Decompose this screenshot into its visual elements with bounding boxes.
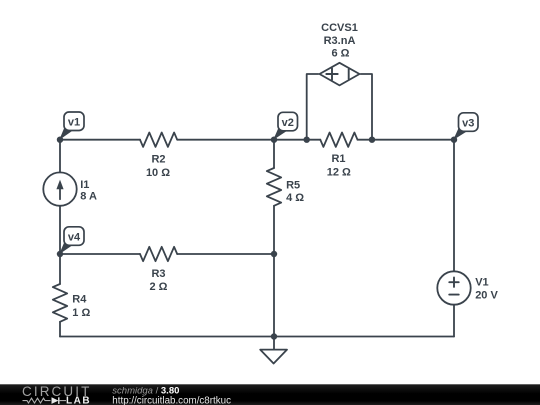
svg-text:20 V: 20 V <box>475 290 498 302</box>
svg-text:8 A: 8 A <box>80 191 97 203</box>
svg-text:I1: I1 <box>80 179 89 191</box>
wire R5 to middle junction <box>273 206 275 254</box>
svg-text:1 Ω: 1 Ω <box>72 307 90 319</box>
svg-text:http://circuitlab.com/c8rtkuc: http://circuitlab.com/c8rtkuc <box>112 395 231 405</box>
wire R4 to bottom rail <box>59 322 61 337</box>
junction CCVS left <box>304 137 310 143</box>
junction ground <box>271 333 277 339</box>
svg-text:6 Ω: 6 Ω <box>332 48 350 60</box>
svg-text:R2: R2 <box>151 153 165 165</box>
wire R2 to v2 <box>177 139 274 141</box>
svg-text:R3.nA: R3.nA <box>324 35 356 47</box>
wire v4 to R4 <box>59 254 61 284</box>
node label v4 <box>59 227 84 255</box>
resistor R1 <box>320 133 357 147</box>
svg-text:v4: v4 <box>68 231 81 243</box>
CCVS1 diamond body <box>320 63 360 86</box>
junction CCVS right <box>369 137 375 143</box>
svg-text:R1: R1 <box>331 153 345 165</box>
svg-text:v3: v3 <box>462 117 474 129</box>
svg-text:v1: v1 <box>68 117 80 129</box>
wire middle v4 to R3 <box>60 253 140 255</box>
svg-text:R3: R3 <box>151 268 165 280</box>
CCVS1 minus sign (rotated bar) <box>348 69 350 78</box>
svg-text:LAB: LAB <box>66 396 91 405</box>
resistor R2 <box>140 133 177 147</box>
footer black bar <box>0 384 540 405</box>
node label v1 <box>59 112 84 140</box>
I1 arrow shaft <box>59 187 61 200</box>
junction node v3 <box>451 137 457 143</box>
wire middle junction down to bottom rail <box>273 254 275 337</box>
svg-text:12 Ω: 12 Ω <box>327 167 351 179</box>
V1 minus sign <box>449 294 458 296</box>
svg-text:v2: v2 <box>282 117 294 129</box>
CCVS1 plus sign <box>326 68 337 79</box>
svg-text:10 Ω: 10 Ω <box>146 167 170 179</box>
junction node v4 <box>57 251 63 257</box>
junction node v1 <box>57 137 63 143</box>
svg-text:R5: R5 <box>286 179 300 191</box>
current source I1 circle <box>43 172 76 205</box>
svg-text:V1: V1 <box>475 277 488 289</box>
wire v2 down to R5 <box>273 140 275 168</box>
wire v3 down to V1 <box>453 140 455 272</box>
svg-text:4 Ω: 4 Ω <box>286 192 304 204</box>
wire R1 to v3 <box>358 139 455 141</box>
svg-text:R4: R4 <box>72 294 87 306</box>
ground stub wire <box>273 337 275 350</box>
resistor R3 <box>140 247 177 261</box>
wire bottom rail <box>60 336 454 338</box>
wire top-left v1 to R2 <box>60 139 140 141</box>
V1 plus sign <box>449 278 458 287</box>
wire V1 to bottom rail <box>453 305 455 337</box>
wire v1 down to I1 <box>59 140 61 173</box>
ground symbol <box>260 350 287 364</box>
wire CCVS1 left leg <box>307 74 319 140</box>
node label v2 <box>273 112 297 140</box>
wire CCVS1 right leg <box>361 74 372 140</box>
voltage source V1 circle <box>437 271 470 304</box>
resistor R5 <box>267 168 281 206</box>
junction middle <box>271 251 277 257</box>
I1 arrow head <box>56 180 63 190</box>
junction node v2 <box>271 137 277 143</box>
wire I1 to v4 <box>59 206 61 254</box>
resistor R4 <box>53 284 67 322</box>
svg-text:CCVS1: CCVS1 <box>321 22 358 34</box>
wire v2 to R1 <box>274 139 320 141</box>
logo resistor-diode symbol <box>23 397 67 404</box>
node label v3 <box>453 113 478 140</box>
svg-text:2 Ω: 2 Ω <box>150 281 168 293</box>
wire R3 to middle junction <box>177 253 274 255</box>
